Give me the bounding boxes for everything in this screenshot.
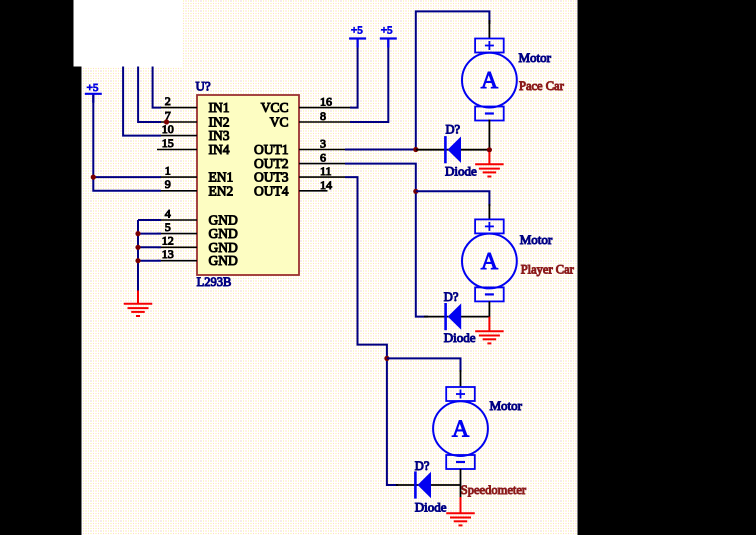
motor pin - (Speedometer) (460, 469, 462, 498)
motor pin + (Speedometer) (460, 370, 462, 387)
diode D1 (Pace Car) (445, 136, 461, 163)
svg-text:IN4: IN4 (209, 142, 230, 157)
svg-text:13: 13 (162, 247, 174, 261)
motor M1 (Pace Car) (462, 39, 517, 121)
pin 2 stub (IN1) (160, 107, 197, 109)
power +5 (VC) (380, 25, 397, 48)
svg-text:Motor: Motor (520, 232, 553, 247)
wire VC to +5 (350, 39, 388, 123)
pin 5 stub (GND) (157, 233, 197, 235)
pin 8 stub (VC) (299, 121, 352, 123)
svg-text:9: 9 (165, 177, 171, 191)
svg-text:D?: D? (415, 459, 430, 473)
svg-text:4: 4 (165, 206, 171, 220)
svg-text:11: 11 (320, 164, 332, 178)
junction OUT2 / Player Car branch (413, 189, 418, 194)
svg-text:+5: +5 (381, 25, 393, 37)
svg-text:6: 6 (320, 151, 326, 165)
svg-text:A: A (481, 249, 499, 275)
wire +5 to EN2 (93, 95, 161, 191)
svg-text:D?: D? (444, 290, 459, 304)
wire VCC to +5 (350, 39, 358, 108)
motor M2 (Player Car) (462, 219, 517, 301)
pin numbers right side (320, 95, 332, 192)
motor pin - (Pace Car) (488, 120, 490, 150)
junction GND pin13 (135, 258, 140, 263)
ground (Player Car) (475, 331, 504, 343)
svg-text:A: A (481, 68, 499, 94)
wire to IN3 (vertical bus line 1) (123, 67, 161, 136)
svg-text:OUT1: OUT1 (254, 142, 289, 157)
svg-text:3: 3 (320, 137, 326, 151)
junction OUT1 / riser (413, 147, 418, 152)
pin 7 stub (IN2) (160, 121, 197, 123)
wire GND bus vertical (137, 220, 139, 291)
wire OUT3 down, over, down (345, 177, 398, 485)
svg-text:Pace Car: Pace Car (519, 79, 565, 93)
svg-text:Diode: Diode (444, 330, 476, 345)
wire GND pin 12 (138, 246, 161, 248)
pin 15 stub (IN4) (157, 149, 197, 151)
svg-text:EN2: EN2 (209, 183, 234, 198)
svg-text:IN1: IN1 (209, 100, 230, 115)
svg-text:A: A (452, 417, 470, 443)
svg-text:IN3: IN3 (209, 128, 230, 143)
wire GND pin 13 (138, 260, 161, 262)
svg-text:14: 14 (320, 178, 332, 192)
wire to diode D? and motor - (Speedometer) (396, 484, 461, 486)
wire branch to EN1 (93, 176, 161, 178)
wire branch to motor + (Player Car) (416, 191, 490, 206)
pin 16 stub (VCC) (299, 107, 352, 109)
pin 10 stub (IN3) (160, 135, 197, 137)
svg-text:Diode: Diode (415, 500, 447, 515)
motor pin + (Pace Car) (488, 20, 490, 39)
ground (Speedometer) (446, 513, 475, 525)
black mask right (578, 0, 756, 535)
svg-text:2: 2 (165, 94, 171, 108)
pin 4 stub (GND) (157, 219, 197, 221)
diode D3 (Speedometer) (415, 471, 431, 498)
wire to diode D? and motor - (Player Car) (424, 316, 489, 318)
svg-text:OUT4: OUT4 (254, 183, 289, 198)
svg-text:U?: U? (196, 79, 211, 94)
wire GND pin 4 (138, 219, 161, 221)
wire OUT1 to diode D? and motor - (Pace Car) (416, 149, 490, 151)
diode D2 (Player Car) (446, 303, 462, 330)
svg-text:15: 15 (162, 136, 174, 150)
pin 6 stub (OUT2) (299, 163, 345, 165)
ground stub (Pace Car) (488, 152, 490, 165)
junction GND pin5 (135, 231, 140, 236)
svg-text:16: 16 (320, 95, 332, 109)
pin 3 stub (OUT1) (299, 149, 345, 151)
wire GND pin 5 (138, 233, 161, 235)
svg-text:Diode: Diode (445, 164, 477, 179)
svg-text:+5: +5 (87, 82, 99, 94)
svg-text:+5: +5 (351, 25, 363, 37)
svg-text:Speedometer: Speedometer (461, 483, 527, 497)
ground stub (left) (137, 291, 139, 305)
pin numbers left side (162, 94, 174, 261)
svg-text:D?: D? (446, 123, 461, 137)
svg-text:VCC: VCC (261, 100, 289, 115)
junction motor- / ground (Pace Car) (487, 147, 492, 152)
svg-text:Motor: Motor (490, 398, 523, 413)
power +5 (VCC) (349, 25, 366, 48)
ground stub (Speedometer) (460, 497, 462, 514)
ground (Pace Car) (475, 164, 504, 176)
ground stub (Player Car) (488, 317, 490, 332)
pin 14 stub (OUT4) unconnected (299, 190, 328, 192)
svg-text:VC: VC (270, 115, 289, 130)
power +5 (left, enables) (85, 82, 102, 103)
motor pin + (Player Car) (488, 204, 490, 219)
junction at EN1 branch (91, 175, 96, 180)
junction OUT3 / Speedometer branch (384, 356, 389, 361)
svg-text:Motor: Motor (519, 50, 552, 65)
junction on IN2 pin (164, 119, 169, 124)
svg-text:12: 12 (162, 234, 174, 248)
svg-text:8: 8 (320, 109, 326, 123)
pin 13 stub (GND) (157, 260, 197, 262)
pin 1 stub (EN1) (160, 176, 197, 178)
pin 9 stub (EN2) (160, 190, 197, 192)
ground (left, IC GND) (124, 304, 153, 316)
wire OUT2 horizontal and down (345, 164, 428, 317)
svg-text:1: 1 (165, 164, 171, 178)
motor M3 (Speedometer) (433, 387, 488, 469)
svg-text:5: 5 (165, 220, 171, 234)
svg-text:Player Car: Player Car (521, 263, 575, 277)
svg-text:L293B: L293B (197, 275, 232, 289)
wire branch to motor + (Speedometer) (387, 358, 461, 372)
pin 11 stub (OUT3) (299, 176, 345, 178)
motor pin - (Player Car) (488, 301, 490, 317)
junction GND pin12 (135, 245, 140, 250)
wire to IN1 (vertical bus line 3) (153, 67, 161, 108)
svg-text:GND: GND (209, 253, 238, 268)
wire OUT1 up and over to motor + (Pace Car) (416, 11, 490, 149)
black mask left (0, 0, 74, 535)
white mask top-left (74, 0, 183, 67)
pin 12 stub (GND) (157, 246, 197, 248)
wire to IN2 (vertical bus line 2) (138, 67, 161, 123)
wire OUT1 horizontal (345, 149, 416, 151)
op-amp U? (L293B driver IC body) (197, 95, 299, 275)
